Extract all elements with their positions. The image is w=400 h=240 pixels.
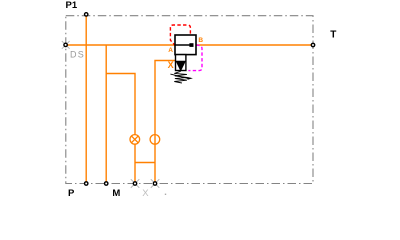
- svg-text:T: T: [330, 30, 336, 41]
- gauge G2 (circle with line through): [150, 135, 160, 145]
- wire: valve X port line down through gauge 2 to node X2: [155, 61, 175, 184]
- valve internal passage: [175, 44, 190, 46]
- gray X mark at node X2: [151, 179, 160, 188]
- enclosure boundary (dash-dot frame): [66, 16, 313, 184]
- gray dot bottom right: [165, 194, 166, 195]
- spring: [174, 71, 187, 83]
- wire: connector between gauge drops: [135, 162, 155, 164]
- node X2: [153, 182, 156, 185]
- node T: [311, 43, 314, 46]
- svg-text:M: M: [112, 188, 120, 199]
- svg-text:X: X: [168, 60, 174, 70]
- wire: main pressure line DS to valve A: [66, 44, 175, 46]
- gauge G1 (circle with X): [130, 135, 140, 145]
- node P: [85, 182, 88, 185]
- wire: branch to gauge 1: [106, 74, 135, 135]
- valve internal plug square: [189, 43, 193, 47]
- adjustment arrow shaft: [170, 74, 188, 79]
- wire: vertical to M: [105, 45, 107, 184]
- svg-text:DS: DS: [70, 49, 85, 59]
- valve V1 body rect: [175, 35, 196, 55]
- node P1: [85, 13, 88, 16]
- svg-text:B: B: [198, 37, 203, 44]
- svg-text:A: A: [168, 47, 173, 54]
- svg-text:P: P: [68, 188, 75, 199]
- adjustment arrow head: [187, 77, 193, 80]
- node DS: [64, 43, 67, 46]
- node M: [105, 182, 108, 185]
- wire: vertical P1 to P: [85, 16, 87, 184]
- valve poppet box: [176, 55, 186, 71]
- svg-text:X: X: [142, 188, 149, 199]
- wire: valve B to T: [196, 44, 313, 46]
- node X1: [133, 182, 136, 185]
- pilot line magenta dashed (B to drain): [188, 45, 202, 71]
- wire: gauge 1 down to node X1: [134, 144, 136, 183]
- pilot line red dashed (A to spring chamber): [170, 25, 190, 46]
- gray X mark at DS node: [62, 41, 70, 49]
- svg-text:P1: P1: [66, 0, 78, 11]
- valve poppet cone: [176, 61, 185, 69]
- gray X mark at node X1: [131, 179, 140, 188]
